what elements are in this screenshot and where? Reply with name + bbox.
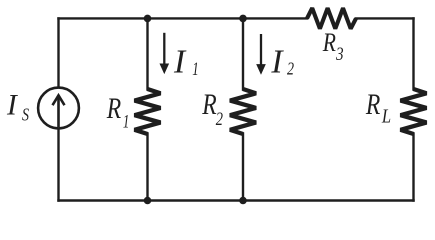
wire R2 branch lower [242, 134, 244, 201]
svg-text:3: 3 [335, 43, 343, 64]
current arrow I1 [160, 33, 168, 73]
node bottom 2 [239, 197, 247, 205]
svg-text:L: L [381, 105, 391, 127]
wire right lower [412, 134, 414, 201]
svg-text:2: 2 [216, 108, 223, 129]
current source IS circle [38, 88, 79, 129]
svg-text:R: R [365, 87, 380, 120]
wire left lower [57, 129, 59, 201]
resistor R3 zigzag [307, 8, 356, 29]
wire left upper [57, 18, 59, 87]
resistor R1 zigzag [135, 89, 161, 134]
wire R1 branch upper [146, 18, 148, 89]
node top 2 [239, 15, 247, 23]
svg-text:1: 1 [123, 112, 129, 132]
svg-text:R: R [322, 28, 336, 58]
wire top right segment [356, 17, 414, 19]
svg-text:R: R [106, 92, 121, 125]
svg-text:I: I [173, 43, 187, 80]
wire right upper [412, 18, 414, 89]
svg-text:I: I [270, 43, 284, 80]
wire R2 branch upper [242, 18, 244, 89]
node bottom 1 [144, 197, 152, 205]
svg-text:S: S [22, 106, 29, 125]
svg-text:R: R [201, 88, 216, 121]
svg-text:2: 2 [287, 60, 294, 79]
wire bottom [59, 199, 414, 201]
node top 1 [144, 15, 152, 23]
wire top left segment [59, 17, 308, 19]
resistor RL zigzag [401, 89, 427, 134]
wire R1 branch lower [146, 134, 148, 201]
svg-text:I: I [6, 90, 18, 122]
current arrow I2 [257, 34, 265, 74]
svg-text:1: 1 [192, 60, 198, 80]
resistor R2 zigzag [230, 89, 256, 134]
current source arrow [53, 95, 65, 127]
